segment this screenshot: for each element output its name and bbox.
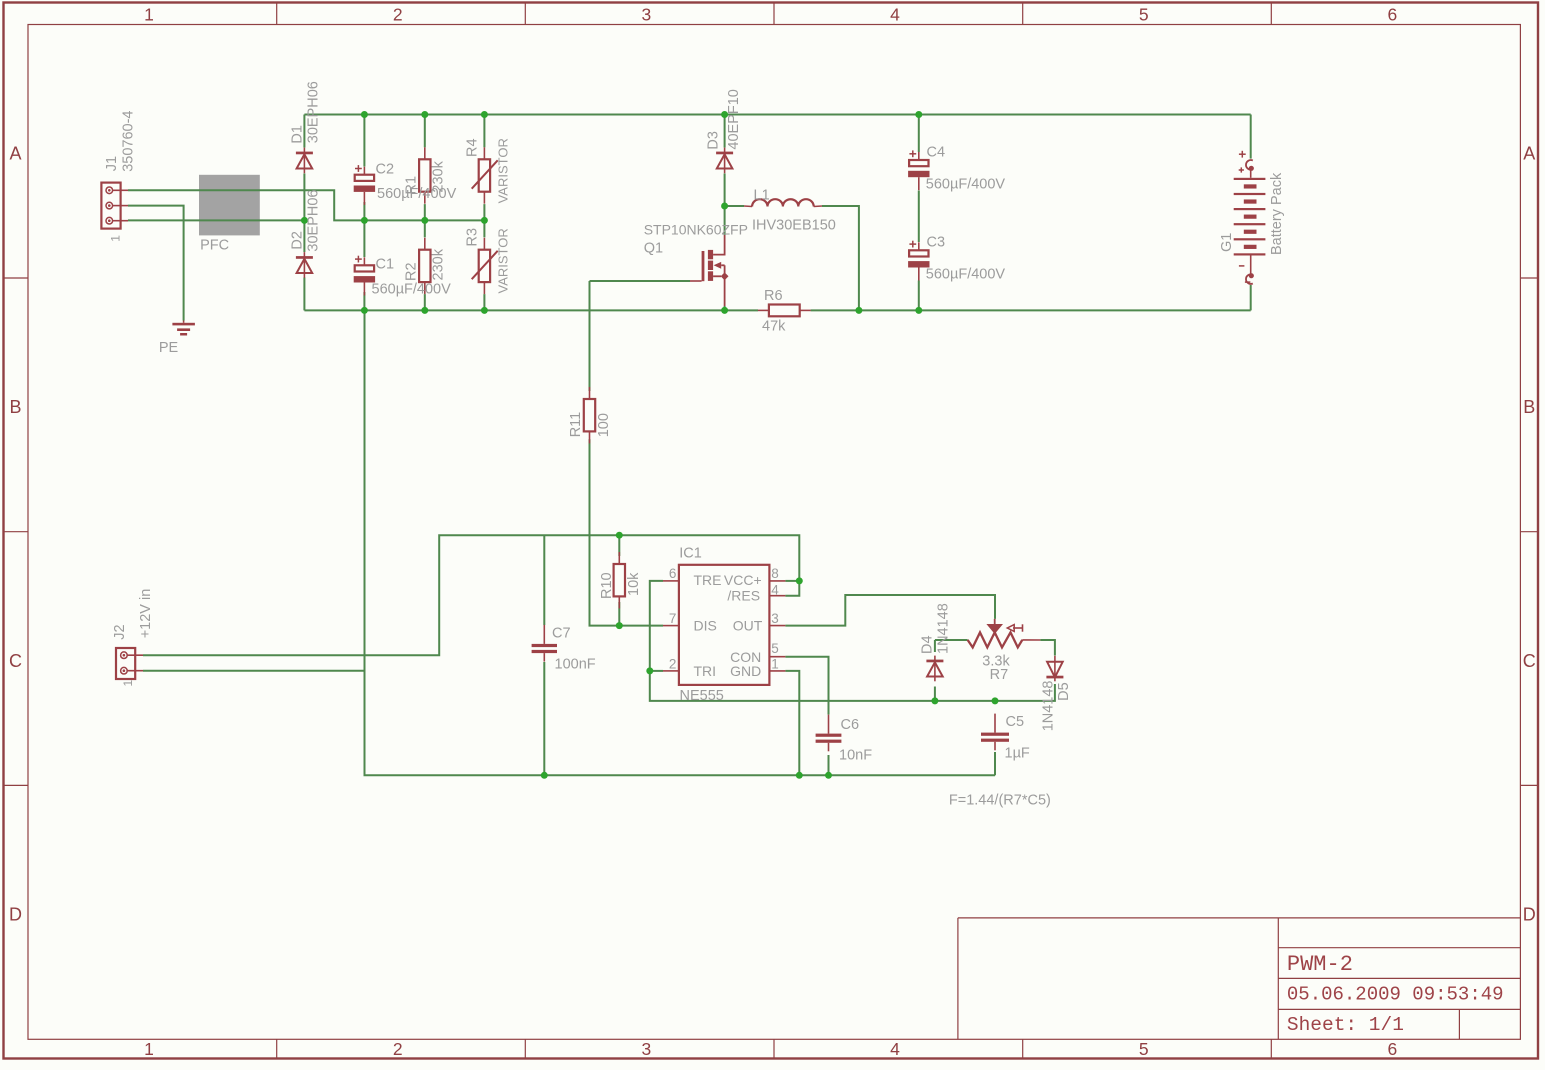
svg-text:VARISTOR: VARISTOR (496, 228, 511, 293)
svg-text:D3: D3 (706, 131, 722, 150)
svg-text:J1: J1 (104, 156, 120, 171)
svg-text:10k: 10k (626, 572, 642, 596)
svg-text:2: 2 (393, 5, 403, 25)
svg-text:R6: R6 (764, 288, 783, 304)
svg-text:10nF: 10nF (839, 747, 872, 763)
svg-text:C1: C1 (376, 257, 395, 273)
svg-text:560µF/400V: 560µF/400V (372, 282, 452, 298)
svg-text:2: 2 (669, 656, 677, 671)
svg-text:R2: R2 (404, 262, 420, 281)
svg-text:4: 4 (890, 1039, 900, 1059)
svg-text:R10: R10 (599, 572, 615, 599)
svg-text:NE555: NE555 (680, 688, 724, 704)
svg-text:8: 8 (771, 566, 779, 581)
svg-text:100: 100 (596, 413, 612, 437)
svg-text:3: 3 (642, 1039, 652, 1059)
svg-text:5: 5 (771, 641, 779, 656)
svg-text:3: 3 (771, 611, 779, 626)
svg-text:3: 3 (642, 5, 652, 25)
svg-text:D4: D4 (920, 635, 936, 654)
svg-text:7: 7 (669, 611, 677, 626)
svg-text:Q1: Q1 (644, 241, 663, 257)
svg-text:230k: 230k (431, 160, 447, 192)
svg-text:6: 6 (1388, 1039, 1398, 1059)
svg-text:5: 5 (1139, 1039, 1149, 1059)
svg-text:PE: PE (159, 340, 179, 356)
svg-text:C3: C3 (927, 235, 946, 251)
svg-text:OUT: OUT (733, 618, 763, 634)
svg-text:C2: C2 (376, 162, 395, 178)
svg-text:D2: D2 (290, 231, 306, 250)
svg-text:R11: R11 (568, 412, 584, 438)
svg-text:C: C (1523, 651, 1536, 671)
svg-text:1: 1 (109, 235, 123, 242)
svg-text:30EPH06: 30EPH06 (306, 81, 322, 143)
svg-text:G1: G1 (1219, 233, 1235, 252)
svg-text:C: C (9, 651, 22, 671)
svg-text:1N4148: 1N4148 (1041, 681, 1057, 732)
svg-text:D: D (9, 905, 22, 925)
svg-text:+12V in: +12V in (138, 589, 154, 639)
svg-text:1: 1 (144, 1039, 154, 1059)
svg-text:560µF/400V: 560µF/400V (926, 176, 1006, 192)
svg-text:1: 1 (144, 5, 154, 25)
svg-text:C5: C5 (1006, 714, 1025, 730)
svg-text:DIS: DIS (694, 618, 717, 634)
svg-text:100nF: 100nF (555, 656, 596, 672)
svg-text:L1: L1 (754, 188, 770, 204)
svg-text:R3: R3 (465, 228, 481, 247)
svg-text:560µF/400V: 560µF/400V (926, 267, 1006, 283)
svg-text:4: 4 (890, 5, 900, 25)
svg-text:Sheet: 1/1: Sheet: 1/1 (1287, 1014, 1404, 1036)
svg-text:30EPH06: 30EPH06 (306, 190, 322, 252)
svg-text:47k: 47k (762, 319, 786, 335)
svg-text:C6: C6 (841, 717, 860, 733)
svg-text:40EPF10: 40EPF10 (726, 89, 742, 149)
svg-text:F=1.44/(R7*C5): F=1.44/(R7*C5) (949, 793, 1051, 809)
svg-text:D5: D5 (1056, 682, 1072, 701)
svg-text:1N4148: 1N4148 (936, 603, 952, 654)
svg-text:5: 5 (1139, 5, 1149, 25)
svg-text:/RES: /RES (727, 587, 760, 603)
svg-text:R7: R7 (990, 667, 1009, 683)
svg-text:J2: J2 (112, 624, 128, 639)
svg-text:C7: C7 (552, 626, 571, 642)
svg-text:B: B (9, 397, 21, 417)
svg-text:TRE: TRE (694, 572, 722, 588)
svg-text:IHV30EB150: IHV30EB150 (752, 218, 836, 234)
svg-text:350760-4: 350760-4 (121, 111, 137, 172)
svg-text:230k: 230k (431, 248, 447, 280)
svg-text:PWM-2: PWM-2 (1287, 952, 1353, 977)
svg-text:1µF: 1µF (1005, 746, 1030, 762)
svg-text:1: 1 (771, 656, 779, 671)
svg-text:TRI: TRI (694, 663, 717, 679)
svg-text:STP10NK60ZFP: STP10NK60ZFP (644, 222, 748, 238)
svg-text:D: D (1523, 905, 1536, 925)
svg-text:1: 1 (121, 680, 135, 687)
svg-text:A: A (9, 144, 21, 164)
svg-text:05.06.2009 09:53:49: 05.06.2009 09:53:49 (1287, 984, 1504, 1006)
svg-text:PFC: PFC (200, 238, 229, 254)
svg-text:VCC+: VCC+ (724, 572, 762, 588)
svg-text:2: 2 (393, 1039, 403, 1059)
svg-text:C4: C4 (927, 145, 946, 161)
svg-text:R1: R1 (404, 176, 420, 195)
svg-text:6: 6 (669, 566, 677, 581)
svg-text:IC1: IC1 (679, 546, 702, 562)
svg-text:GND: GND (730, 663, 761, 679)
svg-text:6: 6 (1388, 5, 1398, 25)
svg-text:A: A (1523, 144, 1535, 164)
svg-text:Battery Pack: Battery Pack (1269, 172, 1285, 255)
svg-text:B: B (1523, 397, 1535, 417)
svg-text:4: 4 (771, 583, 779, 598)
svg-text:R4: R4 (465, 138, 481, 157)
svg-text:D1: D1 (290, 125, 306, 144)
svg-text:VARISTOR: VARISTOR (496, 138, 511, 203)
